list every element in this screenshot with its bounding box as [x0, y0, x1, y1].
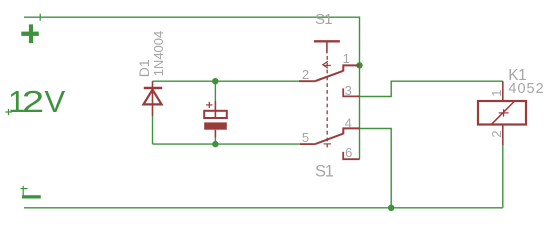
svg-text:5: 5 — [302, 130, 309, 145]
svg-text:1N4004: 1N4004 — [151, 31, 166, 77]
svg-text:S1: S1 — [315, 11, 332, 28]
svg-text:3: 3 — [345, 83, 352, 98]
svg-text:2: 2 — [489, 130, 504, 137]
svg-text:1: 1 — [489, 89, 504, 96]
svg-text:2: 2 — [302, 67, 309, 82]
svg-text:2: 2 — [22, 84, 45, 119]
svg-text:V: V — [44, 84, 65, 119]
svg-text:1: 1 — [343, 51, 350, 66]
svg-text:4: 4 — [345, 116, 352, 131]
svg-text:S1: S1 — [315, 163, 334, 181]
svg-text:4052: 4052 — [508, 81, 544, 97]
svg-text:D1: D1 — [136, 59, 152, 77]
svg-text:6: 6 — [345, 145, 352, 160]
